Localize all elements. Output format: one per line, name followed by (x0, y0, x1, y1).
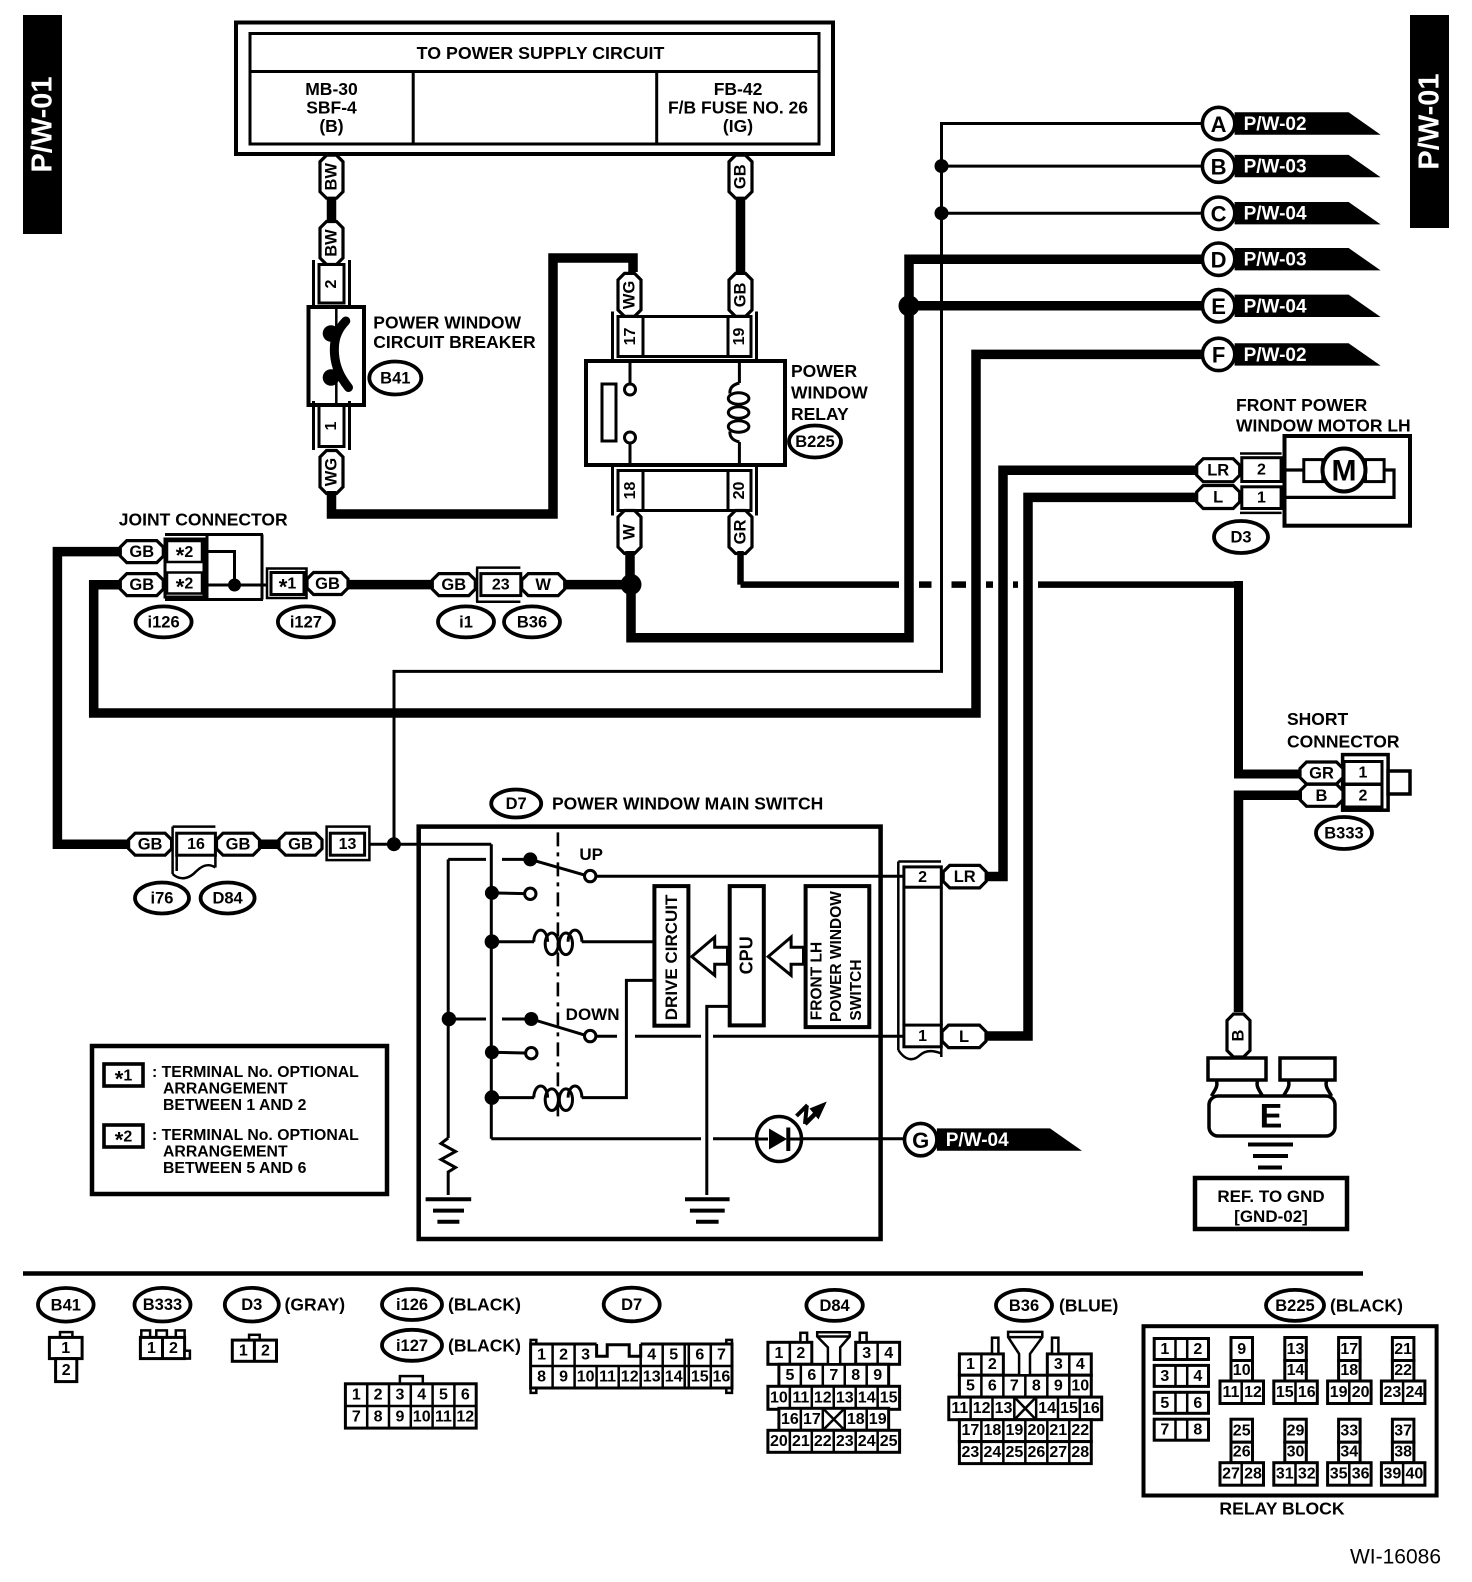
svg-text:GB: GB (288, 836, 313, 854)
svg-text:6: 6 (807, 1367, 816, 1384)
svg-text:i126: i126 (148, 613, 180, 631)
connector terminal WG (at relay pin 17) (618, 273, 641, 316)
svg-text:21: 21 (1049, 1422, 1067, 1439)
svg-text:B36: B36 (517, 613, 547, 631)
svg-text:6: 6 (988, 1378, 997, 1395)
legend connector D84 pinout (768, 1332, 900, 1452)
wire main vertical (switch common) (490, 844, 493, 1139)
relay switch contact (625, 361, 636, 465)
connector terminal LR (main switch) (943, 865, 986, 888)
svg-text:20: 20 (731, 482, 748, 500)
wire GB from power box (IG) (736, 152, 746, 158)
svg-text:WG: WG (621, 281, 639, 309)
label POWER WINDOW RELAY (791, 361, 868, 424)
svg-text:6: 6 (695, 1347, 704, 1364)
svg-text:D: D (1211, 248, 1227, 273)
connector terminal GB (D84 pin 16) (217, 833, 260, 855)
page label tab P/W-01 (right) (1410, 15, 1449, 228)
svg-text:WI-16086: WI-16086 (1350, 1546, 1441, 1569)
ground terminal E (1208, 1058, 1335, 1136)
legend label (BLACK) B225 (1330, 1295, 1403, 1315)
wire pin 13 to main switch (369, 843, 420, 846)
svg-text:22: 22 (814, 1433, 832, 1450)
svg-text:23: 23 (836, 1433, 854, 1450)
svg-text:31: 31 (1276, 1466, 1294, 1483)
signal arrow (cpu<-switch) (768, 937, 803, 975)
svg-text:1: 1 (918, 1028, 927, 1045)
svg-text:12: 12 (973, 1400, 991, 1417)
legend connector B36 ellipse (996, 1290, 1052, 1321)
svg-text:W: W (621, 524, 639, 540)
wire feed into main switch (419, 843, 492, 846)
junction node B wire (935, 159, 949, 173)
svg-text:5: 5 (669, 1347, 678, 1364)
svg-text:1: 1 (1257, 489, 1266, 506)
svg-text:4: 4 (884, 1345, 893, 1362)
svg-text:1: 1 (1359, 765, 1368, 782)
svg-text:P/W-04: P/W-04 (1244, 296, 1307, 317)
connector B36 ellipse (504, 606, 560, 637)
svg-text:2: 2 (169, 1340, 178, 1357)
svg-text:SHORT: SHORT (1287, 709, 1349, 729)
svg-text:i76: i76 (151, 890, 174, 908)
svg-text:W: W (535, 576, 551, 594)
svg-text:25: 25 (1005, 1444, 1023, 1461)
off-page arrow D P/W-03 (1202, 243, 1380, 275)
svg-text:18: 18 (847, 1411, 865, 1428)
svg-text:C: C (1211, 202, 1227, 227)
svg-text:B41: B41 (51, 1296, 81, 1314)
svg-text:22: 22 (1394, 1362, 1412, 1379)
svg-text:4: 4 (647, 1347, 656, 1364)
svg-text:21: 21 (792, 1433, 810, 1450)
svg-text:DRIVE CIRCUIT: DRIVE CIRCUIT (662, 894, 681, 1020)
svg-text:25: 25 (1233, 1423, 1251, 1440)
connector terminal GB (joint conn lower) (120, 574, 163, 596)
svg-text:39: 39 (1384, 1466, 1402, 1483)
connector i1 ellipse (438, 606, 494, 637)
connector terminal GR (short conn) (1300, 762, 1343, 784)
connector B41 ellipse (369, 362, 421, 395)
svg-text:28: 28 (1071, 1444, 1089, 1461)
svg-text:11: 11 (599, 1369, 616, 1386)
connector terminal L (main switch) (942, 1025, 986, 1048)
svg-text:MB-30: MB-30 (305, 79, 358, 99)
legend connector D84 ellipse (806, 1290, 862, 1321)
switch blade UP (523, 852, 596, 881)
connector terminal GB (upper) (729, 155, 752, 198)
svg-text:5: 5 (785, 1367, 794, 1384)
svg-text:12: 12 (1244, 1384, 1262, 1401)
svg-text:40: 40 (1406, 1466, 1424, 1483)
terminal *1 of i127 (267, 569, 307, 600)
off-page arrow B P/W-03 (1202, 150, 1380, 182)
svg-text:15: 15 (691, 1369, 709, 1386)
junction node C wire (935, 206, 949, 220)
svg-text:SBF-4: SBF-4 (306, 98, 357, 118)
wire cpu to ground (707, 1006, 730, 1195)
svg-text:17: 17 (803, 1411, 821, 1428)
signal arrow (drive<-cpu) (692, 937, 728, 975)
svg-text:10: 10 (1233, 1362, 1251, 1379)
svg-text:18: 18 (622, 482, 639, 500)
svg-text:10: 10 (413, 1409, 431, 1426)
power window relay body B225 (586, 361, 785, 465)
svg-text:11: 11 (951, 1400, 968, 1417)
svg-text:GB: GB (315, 575, 340, 593)
wire resistor branch vertical (447, 859, 450, 1138)
svg-text:11: 11 (792, 1389, 809, 1406)
svg-text:14: 14 (1287, 1362, 1305, 1379)
power supply circuit box (236, 23, 833, 155)
svg-text:25: 25 (880, 1433, 898, 1450)
junction node DOWN branch (442, 1012, 456, 1026)
svg-text:GB: GB (441, 576, 466, 594)
svg-text:10: 10 (1071, 1378, 1089, 1395)
connector terminal GB (i76) (129, 833, 172, 855)
svg-text:POWER WINDOW: POWER WINDOW (828, 891, 845, 1022)
svg-text:2: 2 (1257, 462, 1266, 479)
svg-text:14: 14 (858, 1389, 876, 1406)
svg-text:M: M (1332, 455, 1357, 488)
svg-text:B333: B333 (1324, 825, 1363, 843)
relay connector plate pins 18/20 (613, 466, 757, 516)
svg-text:D84: D84 (212, 890, 243, 908)
terminal 13 of D7 (327, 827, 370, 861)
connector terminal L (motor) (1197, 486, 1240, 509)
wire to arrow B (942, 165, 1204, 168)
junction node (W / GB bus) (621, 574, 642, 595)
off-page arrow A P/W-02 (1202, 107, 1380, 139)
resistor (441, 1138, 456, 1195)
svg-text:17: 17 (622, 328, 639, 346)
label FRONT POWER WINDOW MOTOR LH (1236, 395, 1411, 436)
svg-text:7: 7 (717, 1347, 726, 1364)
svg-text:11: 11 (435, 1409, 452, 1426)
svg-text:19: 19 (1005, 1422, 1023, 1439)
svg-text:1: 1 (352, 1386, 361, 1403)
svg-text:7: 7 (1010, 1378, 1019, 1395)
note box terminal arrangement (92, 1046, 387, 1194)
svg-text:GR: GR (1309, 765, 1334, 783)
svg-text:i127: i127 (396, 1337, 428, 1355)
label POWER WINDOW CIRCUIT BREAKER (373, 312, 536, 352)
svg-text:9: 9 (1237, 1341, 1246, 1358)
wire (thin) A/B/C net vertical and to main switch (394, 124, 1203, 841)
drive circuit box (654, 886, 688, 1026)
svg-text:7: 7 (352, 1409, 361, 1426)
svg-text:17: 17 (962, 1422, 980, 1439)
svg-text:11: 11 (1223, 1384, 1240, 1401)
switch blade DOWN (524, 1012, 596, 1042)
svg-text:26: 26 (1027, 1444, 1045, 1461)
svg-text:L: L (959, 1028, 969, 1046)
svg-text:4: 4 (417, 1386, 426, 1403)
svg-text:CIRCUIT BREAKER: CIRCUIT BREAKER (373, 332, 536, 352)
svg-text:i127: i127 (290, 613, 322, 631)
connector terminal W (relay pin 18) (618, 511, 641, 554)
svg-text:23: 23 (962, 1444, 980, 1461)
svg-text:BETWEEN 1 AND 2: BETWEEN 1 AND 2 (163, 1097, 307, 1114)
svg-text:2: 2 (796, 1345, 805, 1362)
svg-text:19: 19 (869, 1411, 887, 1428)
coil upper (up relay coil) (485, 930, 655, 955)
svg-text:F: F (1212, 343, 1225, 368)
svg-text:27: 27 (1049, 1444, 1067, 1461)
svg-text:19: 19 (731, 328, 748, 346)
connector terminal B (ground lead) (1227, 1014, 1250, 1057)
off-page arrow F P/W-02 (1202, 338, 1380, 370)
svg-text:14: 14 (1038, 1400, 1056, 1417)
svg-text:8: 8 (851, 1367, 860, 1384)
svg-text:G: G (912, 1128, 929, 1153)
svg-text:7: 7 (829, 1367, 838, 1384)
wire WG from breaker to relay pin 17 (332, 258, 634, 514)
svg-text:24: 24 (983, 1444, 1001, 1461)
svg-text:8: 8 (1032, 1378, 1041, 1395)
svg-text:28: 28 (1244, 1466, 1262, 1483)
ground symbol (E) (1248, 1145, 1293, 1168)
wire DOWN output to pin 1 (596, 1035, 904, 1038)
connector terminal WG (below breaker) (320, 451, 343, 494)
front power window motor LH box (1285, 436, 1411, 526)
connector terminal GB (i127) (307, 573, 348, 595)
svg-text:7: 7 (1160, 1422, 1169, 1439)
wire LR motor to main switch pin 2 (987, 470, 1197, 876)
wire GB bus i127 to i1 (348, 580, 434, 590)
terminal 1 of B333 (1344, 762, 1382, 785)
svg-text:2: 2 (1193, 1341, 1202, 1358)
ground symbol (cpu) (685, 1199, 730, 1222)
svg-text:20: 20 (1352, 1384, 1370, 1401)
svg-text:UP: UP (579, 845, 603, 864)
terminal 2 of D7 (switch) (904, 867, 941, 887)
svg-text:(BLUE): (BLUE) (1059, 1295, 1118, 1315)
svg-text:: TERMINAL No. OPTIONAL: : TERMINAL No. OPTIONAL (152, 1064, 359, 1081)
svg-text:6: 6 (461, 1386, 470, 1403)
svg-text:5: 5 (966, 1378, 975, 1395)
svg-text:12: 12 (621, 1369, 639, 1386)
svg-text:RELAY: RELAY (791, 404, 849, 424)
svg-text:(BLACK): (BLACK) (448, 1295, 521, 1315)
svg-text:13: 13 (1287, 1341, 1305, 1358)
svg-text:16: 16 (1298, 1384, 1316, 1401)
svg-text:18: 18 (1340, 1362, 1358, 1379)
svg-text:5: 5 (1160, 1395, 1169, 1412)
wire GB bus to main switch pin 13 row (259, 839, 280, 849)
terminal 1 of circuit breaker B41 (314, 401, 350, 450)
legend label (BLACK) i126 (448, 1295, 521, 1315)
svg-text:15: 15 (1060, 1400, 1078, 1417)
svg-text:LR: LR (954, 868, 976, 886)
legend connector B41 pinout (49, 1332, 82, 1382)
connector i127 ellipse (278, 606, 334, 637)
svg-text:GB: GB (226, 836, 251, 854)
terminal 2 of B333 (1344, 785, 1382, 808)
connector terminal BW (lower) (320, 222, 343, 265)
legend connector B333 pinout (140, 1330, 190, 1358)
svg-text:17: 17 (1340, 1341, 1358, 1358)
svg-text:FB-42: FB-42 (714, 79, 763, 99)
svg-text:P/W-02: P/W-02 (1244, 345, 1307, 366)
terminal 1 of D3 (1242, 487, 1281, 509)
svg-text:8: 8 (374, 1409, 383, 1426)
svg-text:2: 2 (988, 1356, 997, 1373)
svg-text:19: 19 (1330, 1384, 1348, 1401)
svg-text:1: 1 (61, 1340, 70, 1357)
svg-text:2: 2 (261, 1343, 270, 1360)
svg-text:1: 1 (147, 1340, 156, 1357)
svg-text:TO POWER SUPPLY CIRCUIT: TO POWER SUPPLY CIRCUIT (417, 43, 665, 63)
relay coil (728, 361, 749, 465)
legend relay block B225 pinout (1144, 1326, 1437, 1518)
connector B225 ellipse (789, 426, 841, 458)
svg-text:WINDOW: WINDOW (791, 383, 868, 403)
svg-text:8: 8 (1193, 1422, 1202, 1439)
svg-text:9: 9 (1054, 1378, 1063, 1395)
svg-text:P/W-04: P/W-04 (946, 1130, 1009, 1151)
contact NC upper (485, 886, 536, 900)
svg-text:i126: i126 (396, 1296, 428, 1314)
svg-text:POWER WINDOW: POWER WINDOW (373, 312, 521, 332)
svg-text:ARRANGEMENT: ARRANGEMENT (163, 1144, 288, 1161)
connector terminal GB (D7 pin 13) (279, 833, 322, 855)
svg-text:2: 2 (374, 1386, 383, 1403)
wire motor internal (1281, 470, 1394, 497)
label SHORT CONNECTOR (1287, 709, 1400, 752)
legend connector B225 ellipse (1266, 1290, 1324, 1321)
svg-text:: TERMINAL No. OPTIONAL: : TERMINAL No. OPTIONAL (152, 1127, 359, 1144)
svg-text:13: 13 (836, 1389, 854, 1406)
svg-text:CONNECTOR: CONNECTOR (1287, 732, 1400, 752)
svg-text:24: 24 (1406, 1384, 1424, 1401)
svg-text:P/W-01: P/W-01 (1414, 73, 1446, 169)
motor connector D3 bracket (1240, 454, 1282, 513)
wire BW from power box (327, 152, 337, 158)
svg-text:(B): (B) (319, 116, 343, 136)
svg-text:2: 2 (1359, 788, 1368, 805)
svg-text:B: B (1230, 1029, 1248, 1041)
svg-text:D7: D7 (621, 1296, 642, 1314)
wire GB joint connector pin 6 to F-line and arrow F (94, 354, 1203, 713)
connector D7 ellipse (491, 790, 541, 818)
legend connector i126 ellipse (382, 1289, 442, 1320)
svg-text:L: L (1213, 489, 1223, 507)
svg-text:16: 16 (187, 836, 205, 853)
svg-text:9: 9 (559, 1369, 568, 1386)
svg-text:B: B (1211, 154, 1227, 179)
terminal *2 label (upper) (176, 543, 194, 568)
off-page arrow E P/W-04 (1202, 290, 1380, 322)
svg-text:37: 37 (1394, 1423, 1412, 1440)
coil lower (down relay coil) (485, 980, 655, 1110)
svg-text:10: 10 (770, 1389, 788, 1406)
terminal 16 of D84 (173, 827, 216, 879)
off-page arrow G P/W-04 (905, 1123, 1083, 1155)
connector B333 ellipse (1316, 817, 1372, 849)
relay connector plate pins 17/19 (613, 312, 757, 362)
wire GB bus down and right to D/E junction (631, 310, 909, 638)
svg-text:B36: B36 (1009, 1297, 1039, 1315)
svg-text:GB: GB (129, 543, 154, 561)
svg-text:POWER: POWER (791, 361, 857, 381)
wire L motor to main switch pin 1 (987, 497, 1197, 1036)
LED indicator (757, 1102, 827, 1162)
svg-text:1: 1 (239, 1343, 248, 1360)
svg-text:5: 5 (439, 1386, 448, 1403)
legend label (BLACK) i127 (448, 1335, 521, 1355)
wire GB down to relay pin 19 (736, 197, 746, 275)
svg-text:SWITCH: SWITCH (848, 959, 865, 1020)
svg-text:F/B FUSE NO. 26: F/B FUSE NO. 26 (668, 98, 808, 118)
svg-text:(GRAY): (GRAY) (285, 1295, 346, 1315)
svg-text:3: 3 (862, 1345, 871, 1362)
svg-text:A: A (1211, 112, 1227, 137)
svg-text:2: 2 (918, 869, 927, 886)
svg-text:WINDOW MOTOR LH: WINDOW MOTOR LH (1236, 416, 1411, 436)
wire DOWN fixed contact (456, 1018, 531, 1021)
mechanical link (dash-dot) (557, 832, 560, 1118)
connector terminal LR (motor) (1197, 459, 1240, 482)
junction node (A/B/C to pin 13) (387, 837, 401, 851)
svg-text:1: 1 (537, 1347, 546, 1364)
main switch connector bracket (898, 862, 941, 1060)
wire to arrow E (909, 301, 1203, 311)
svg-text:33: 33 (1340, 1423, 1358, 1440)
label POWER WINDOW MAIN SWITCH (552, 794, 823, 814)
connector D84 ellipse (201, 883, 255, 914)
svg-text:BW: BW (323, 163, 341, 191)
legend connector i126/i127 pinout (345, 1376, 476, 1428)
power window main switch box D7 (419, 827, 881, 1239)
legend connector D7 pinout (531, 1340, 732, 1393)
legend connector B41 ellipse (38, 1288, 94, 1322)
svg-text:29: 29 (1287, 1423, 1305, 1440)
svg-text:3: 3 (395, 1386, 404, 1403)
svg-text:(BLACK): (BLACK) (1330, 1295, 1403, 1315)
svg-text:13: 13 (339, 836, 357, 853)
svg-text:GB: GB (138, 836, 163, 854)
svg-text:P/W-01: P/W-01 (27, 76, 59, 172)
svg-text:BETWEEN 5 AND 6: BETWEEN 5 AND 6 (163, 1160, 307, 1177)
connector terminal BW (upper) (320, 155, 343, 198)
svg-text:3: 3 (1160, 1368, 1169, 1385)
legend connector D3 pinout (232, 1335, 276, 1362)
svg-text:16: 16 (713, 1369, 731, 1386)
junction node (D/E wires) (899, 295, 920, 316)
wire GR from relay pin 20 to short connector (741, 551, 1303, 774)
svg-text:1: 1 (323, 421, 340, 430)
terminal 2 of D3 (1242, 458, 1281, 482)
svg-text:9: 9 (395, 1409, 404, 1426)
svg-text:1: 1 (966, 1356, 975, 1373)
svg-text:B: B (1316, 787, 1328, 805)
terminal 1 of D7 (switch) (904, 1025, 941, 1047)
svg-text:9: 9 (873, 1367, 882, 1384)
svg-text:i1: i1 (459, 613, 473, 631)
wire to arrow D (909, 259, 1203, 309)
svg-text:1: 1 (1160, 1341, 1169, 1358)
legend connector B333 ellipse (135, 1288, 191, 1322)
svg-text:E: E (1211, 294, 1226, 319)
svg-text:B225: B225 (795, 433, 834, 451)
svg-text:GB: GB (732, 282, 750, 307)
connector terminal GB (i1) (432, 574, 475, 596)
svg-text:ARRANGEMENT: ARRANGEMENT (163, 1081, 288, 1098)
svg-text:LR: LR (1207, 462, 1229, 480)
svg-text:1: 1 (774, 1345, 783, 1362)
svg-text:CPU: CPU (737, 936, 757, 974)
